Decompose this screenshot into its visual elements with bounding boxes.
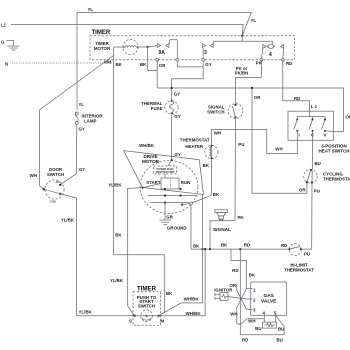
- svg-text:PU: PU: [304, 252, 310, 257]
- wire GY fuse to drive motor top terminal: [171, 115, 173, 160]
- wire OR terminal riser to horizontal bus: [156, 60, 158, 88]
- svg-text:G: G: [1, 40, 5, 45]
- wire switch 4 right contact to RD terminal: [282, 48, 285, 60]
- interior lamp: [75, 112, 78, 125]
- svg-text:BK: BK: [166, 291, 173, 296]
- svg-text:HEAT SWITCH: HEAT SWITCH: [319, 149, 350, 154]
- svg-text:SIGNAL: SIGNAL: [213, 227, 231, 233]
- svg-text:PU: PU: [314, 189, 320, 194]
- gas valve box: [251, 282, 287, 315]
- svg-text:RD: RD: [242, 337, 248, 342]
- svg-text:THERMOSTAT: THERMOSTAT: [180, 137, 210, 142]
- svg-text:GY: GY: [79, 167, 85, 172]
- wire YL riser to interior lamp: [76, 13, 78, 111]
- svg-text:GROUND: GROUND: [167, 226, 187, 231]
- wire PU cycling thermostat down to hi-limit: [302, 182, 312, 249]
- svg-text:COM: COM: [50, 201, 56, 204]
- svg-text:GY: GY: [174, 114, 180, 119]
- svg-text:SWITCH: SWITCH: [138, 303, 155, 308]
- junction WH/BK riser V2 on bus: [204, 248, 206, 250]
- terminal OR on timer box edge: [156, 58, 159, 61]
- wire WH/BK V1 from motor down to push-start M (diagonal): [159, 195, 203, 316]
- drive motor top terminal: [171, 159, 173, 161]
- svg-text:RD: RD: [294, 96, 300, 101]
- svg-text:S: S: [129, 319, 132, 324]
- wire switch 3 right contact to feed bus and to switch 4 cam: [213, 41, 272, 44]
- svg-text:BK: BK: [203, 163, 210, 168]
- wire coil junction down to OR terminal riser: [148, 47, 158, 70]
- svg-text:3: 3: [204, 50, 207, 56]
- svg-text:NO: NO: [56, 181, 60, 184]
- svg-text:RD: RD: [244, 243, 250, 248]
- wire motor run lead diagonal to node: [182, 204, 191, 205]
- svg-text:BK: BK: [221, 242, 228, 247]
- svg-text:YL/BK: YL/BK: [108, 182, 122, 187]
- wire GY terminal jog down-left to thermal fuse: [172, 67, 204, 100]
- 3-position heat switch box: [288, 111, 333, 140]
- svg-text:PK/BN: PK/BN: [235, 71, 249, 76]
- wire YL top horizontal to timer feed junction: [77, 13, 251, 36]
- wire V contact to box edge (OR feed): [325, 130, 333, 133]
- switch 4 (timer cam contacts with cam follower): [263, 44, 284, 48]
- wire overload to start winding: [164, 174, 166, 178]
- junction GY riser on OR bus: [171, 87, 173, 89]
- wire L1 drop to contact bus: [309, 111, 311, 116]
- wire GY lamp down to door switch NC contact: [60, 125, 77, 185]
- cycling thermostat: [304, 170, 318, 184]
- wire timer motor right lead: [138, 46, 148, 48]
- heat switch poles I C V: [294, 117, 325, 130]
- svg-text:PK: PK: [238, 215, 245, 220]
- wire WH/BK V2 riser from bus to M horizontal: [204, 249, 206, 316]
- svg-text:BU: BU: [278, 327, 284, 332]
- node motor run splice (open): [190, 202, 193, 205]
- ground (motor chassis symbol): [160, 220, 172, 224]
- drive motor terminal block outline: [124, 151, 204, 195]
- svg-text:BU: BU: [277, 337, 283, 342]
- svg-text:TIMER: TIMER: [92, 30, 111, 36]
- overload protector: [154, 166, 177, 174]
- svg-text:WH/BK: WH/BK: [184, 296, 200, 301]
- svg-text:BK: BK: [115, 233, 122, 238]
- svg-text:THERMOSTAT: THERMOSTAT: [284, 267, 314, 272]
- drive motor (dashed circle): [140, 161, 198, 214]
- thermal fuse: [165, 101, 178, 114]
- door switch common contact: [43, 188, 45, 190]
- svg-text:MOTOR: MOTOR: [94, 46, 111, 51]
- wires ignitor crossover to gas valve pins 1-3: [228, 284, 253, 325]
- wire WH riser to door switch common: [38, 110, 40, 186]
- svg-text:RD: RD: [286, 61, 292, 66]
- svg-text:WH/BK: WH/BK: [186, 311, 202, 316]
- wire BK jog from bus to gas valve pin 1: [231, 249, 247, 288]
- door switch arm: [44, 189, 60, 194]
- junction OR bus to cycling thermostat branch: [251, 87, 253, 89]
- wire BK bus horizontal to hi-limit thermostat: [191, 248, 289, 250]
- svg-text:BU: BU: [255, 326, 261, 331]
- svg-text:WH: WH: [248, 318, 255, 323]
- gas valve bottom loop with flame sensor: [237, 314, 284, 335]
- svg-text:OR: OR: [299, 188, 306, 193]
- junction WH/BK riser V1 on bus: [201, 248, 203, 250]
- signal buzzer (speaker symbol): [215, 210, 228, 221]
- start winding box: [161, 178, 179, 189]
- junction at timer box top (YL/L1 feed): [241, 35, 243, 37]
- svg-text:HEATER: HEATER: [185, 144, 204, 149]
- wire BK from timer motor down and over to push-start M: [114, 47, 165, 316]
- terminal GY on timer box edge: [202, 58, 205, 61]
- junction motor left terminal: [142, 187, 144, 189]
- door switch NO contact: [59, 193, 61, 195]
- ignitor: [215, 293, 228, 301]
- wire YL/BK motor start lead to push-start S: [128, 188, 143, 316]
- terminal PK on timer box edge: [260, 58, 263, 61]
- wire signal switch down to signal buzzer: [234, 117, 237, 221]
- svg-text:YL: YL: [251, 18, 257, 23]
- svg-text:BK: BK: [249, 273, 256, 278]
- wire BU from C to cycling thermostat: [311, 140, 313, 169]
- wire OR branch down to cycling thermostat: [252, 88, 307, 193]
- wire heat switch contact bus: [297, 116, 325, 118]
- wire PK terminal to signal switch: [236, 60, 262, 104]
- svg-text:M: M: [161, 319, 165, 324]
- svg-text:WH: WH: [30, 173, 37, 178]
- wire buzzer return to BK bus: [210, 221, 235, 249]
- svg-text:VALVE: VALVE: [261, 299, 277, 305]
- ground (supply earth symbol): [7, 41, 20, 51]
- door switch NC contact: [59, 184, 61, 186]
- timer motor coil: [123, 39, 138, 54]
- svg-text:BK: BK: [213, 192, 220, 197]
- svg-text:WH: WH: [230, 311, 237, 316]
- svg-text:WH/BK: WH/BK: [139, 143, 155, 148]
- wire WH riser via thermostat heater to heat switch I: [211, 130, 297, 196]
- wire C terminal down through box bottom: [312, 131, 314, 140]
- svg-text:SWITCH: SWITCH: [47, 172, 64, 177]
- terminal (jumper) on timer box edge: [176, 58, 179, 61]
- svg-text:YL: YL: [79, 102, 85, 107]
- wire WH diagonal from timer motor terminal to door switch: [39, 56, 113, 111]
- hi-limit thermostat: [289, 244, 301, 256]
- wire YL/BK door switch NO down and along bottom to push-start S: [60, 194, 134, 316]
- motor internal contact rows: [143, 184, 198, 203]
- wire junction to switch 9A left contact: [148, 46, 158, 47]
- svg-text:YL/BK: YL/BK: [110, 278, 124, 283]
- junction coil to switch 9A feed: [147, 46, 149, 48]
- svg-text:V: V: [324, 133, 327, 138]
- svg-text:4: 4: [269, 52, 272, 58]
- svg-text:FUSE: FUSE: [151, 106, 163, 111]
- svg-text:PU: PU: [238, 142, 244, 147]
- svg-text:GY: GY: [79, 127, 85, 132]
- wire switch 4 left contact to PK terminal: [261, 48, 262, 60]
- svg-text:YL: YL: [88, 7, 94, 12]
- terminal RD on timer box edge: [281, 58, 284, 61]
- svg-text:N: N: [5, 62, 8, 67]
- wire OR horizontal bus to heat switch V feed: [157, 88, 343, 131]
- svg-text:OR: OR: [254, 95, 261, 100]
- svg-text:SWITCH: SWITCH: [207, 110, 224, 115]
- svg-text:9A: 9A: [159, 50, 166, 56]
- svg-text:I: I: [299, 133, 300, 138]
- svg-text:GR: GR: [166, 215, 173, 220]
- svg-text:BK: BK: [140, 62, 147, 67]
- svg-text:GY: GY: [205, 62, 211, 67]
- svg-text:LAMP: LAMP: [84, 119, 97, 124]
- svg-text:OR: OR: [159, 63, 166, 68]
- svg-text:OR: OR: [229, 283, 236, 288]
- wire N neutral (dotted) to timer motor WH terminal: [12, 62, 114, 64]
- svg-text:BU: BU: [315, 161, 321, 166]
- svg-text:YL/BK: YL/BK: [61, 218, 75, 223]
- wire RD terminal down to heat switch L1 feed: [283, 60, 310, 111]
- wire junction drop to contact bus: [241, 36, 243, 41]
- wire node down to BK bus: [190, 205, 192, 249]
- switch 9A (timer cam contacts): [157, 44, 169, 48]
- switch 3 (timer cam contacts): [203, 44, 214, 48]
- wire RD riser from bus to gas valve bottom loop: [239, 249, 241, 335]
- wire timer motor left lead: [114, 46, 124, 48]
- svg-text:BK: BK: [116, 62, 123, 67]
- svg-text:RD: RD: [281, 243, 287, 248]
- junction buzzer return on bus: [209, 248, 211, 250]
- wire L1 from supply to timer feed junction: [11, 25, 243, 36]
- wire motor terminal to overload: [168, 160, 172, 166]
- signal switch: [228, 104, 243, 119]
- wire M terminal to WH/BK risers: [159, 315, 206, 317]
- timer (dashed enclosure): [90, 36, 295, 60]
- push-to-start switch: [141, 310, 153, 322]
- wire I terminal down through box bottom: [296, 131, 298, 140]
- svg-text:THERMOSTAT: THERMOSTAT: [323, 176, 350, 181]
- svg-text:L1: L1: [1, 23, 7, 28]
- svg-text:WH: WH: [214, 131, 221, 136]
- wire node up to WH riser: [192, 195, 212, 203]
- svg-text:OR: OR: [346, 115, 350, 120]
- motor internal contact dots: [164, 188, 166, 190]
- thermostat heater: [205, 145, 218, 158]
- svg-text:GAS: GAS: [263, 293, 274, 299]
- svg-text:BK: BK: [193, 244, 200, 249]
- svg-text:TIMER: TIMER: [137, 285, 157, 292]
- svg-text:RD: RD: [232, 268, 238, 273]
- wire switch 9A right contact over to switch 3 left contact: [170, 40, 204, 67]
- svg-text:PROTECTOR: PROTECTOR: [156, 170, 176, 174]
- svg-text:GY: GY: [174, 92, 180, 97]
- svg-text:L 1: L 1: [311, 104, 318, 109]
- svg-text:WH: WH: [275, 147, 282, 152]
- wire GR motor ground lead: [164, 203, 166, 220]
- svg-text:GY: GY: [175, 152, 181, 157]
- door switch: [45, 180, 64, 199]
- svg-text:YL/BK: YL/BK: [79, 310, 93, 315]
- junction RD riser on bus: [239, 248, 241, 250]
- push-to-start switch enclosure (dashed): [133, 292, 161, 326]
- svg-text:RUN: RUN: [181, 180, 191, 185]
